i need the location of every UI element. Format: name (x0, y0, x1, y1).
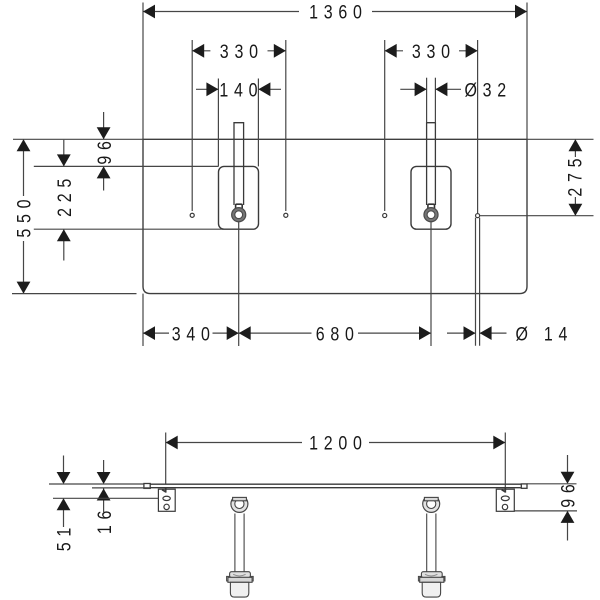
extension line top right (527, 138, 594, 140)
drain trap left (227, 493, 254, 597)
console plate front profile (144, 484, 527, 489)
svg-text:340: 340 (172, 323, 216, 345)
dimension 140 (196, 79, 281, 167)
svg-text:Ø 14: Ø 14 (516, 323, 574, 345)
fixing hole mid-left (284, 213, 288, 217)
extension line basin top edge (34, 165, 219, 167)
extension line bracket bottom right elevation (514, 510, 577, 512)
drain left (232, 208, 246, 222)
extension line plate top left elevation (49, 483, 144, 485)
wall bracket left (158, 488, 175, 511)
extension line top left (13, 138, 143, 140)
svg-text:550: 550 (13, 194, 35, 238)
svg-text:1200: 1200 (309, 432, 368, 454)
svg-text:330: 330 (220, 41, 264, 63)
svg-text:140: 140 (219, 79, 263, 101)
dimension 340 and 680 and Ø14 (143, 218, 507, 346)
dimension 550 (23, 139, 25, 293)
console plate outline (143, 139, 527, 293)
basin cutout left (219, 166, 259, 229)
extension line basin bottom edge (34, 228, 223, 230)
dimension 330 right (385, 40, 478, 214)
dimension 1200 (166, 433, 506, 493)
svg-text:1360: 1360 (309, 1, 368, 23)
basin cutout right (411, 166, 451, 229)
extension line plate bottom left elevation (92, 487, 150, 489)
extension line bottom left (12, 293, 137, 295)
fixing hole far-left (190, 213, 194, 217)
svg-text:330: 330 (412, 41, 456, 63)
faucet hole right (427, 123, 436, 205)
extension line bracket slot left elevation (53, 497, 158, 499)
fixing hole far-right (476, 214, 480, 218)
dimension 330 left (192, 40, 286, 211)
svg-text:Ø32: Ø32 (465, 79, 512, 101)
dimension 1360 (143, 3, 527, 140)
dimension 96 elevation (567, 455, 569, 541)
dimension Ø32 (400, 78, 461, 123)
drain right (424, 208, 438, 222)
drain collar tab left (236, 204, 243, 209)
svg-text:16: 16 (93, 505, 115, 534)
svg-text:275: 275 (564, 153, 586, 197)
dimension 225 (63, 140, 65, 261)
svg-text:225: 225 (54, 173, 76, 217)
extension line hole right (480, 215, 594, 217)
dimension 16 (103, 460, 105, 512)
fixing hole mid-right (383, 213, 387, 217)
dimension 96 top view (103, 112, 105, 191)
svg-text:51: 51 (53, 522, 75, 551)
drain collar tab right (428, 204, 435, 209)
faucet hole left (234, 123, 244, 205)
svg-text:96: 96 (557, 478, 579, 507)
svg-text:680: 680 (316, 323, 360, 345)
dimension 275 (574, 139, 576, 215)
dimension 51 (63, 456, 65, 528)
wall bracket right (496, 488, 514, 511)
extension line plate top right elevation (527, 483, 577, 485)
drain trap right (418, 493, 445, 597)
